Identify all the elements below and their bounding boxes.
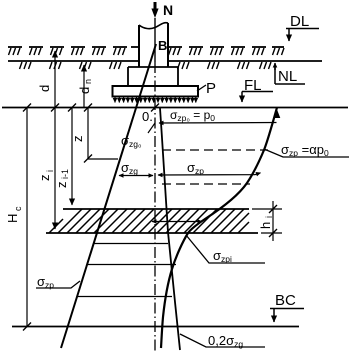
- svg-text:σzp₀ = p0: σzp₀ = p0: [170, 108, 215, 123]
- NL ground line right: [168, 61, 322, 69]
- svg-text:c: c: [13, 206, 23, 211]
- load arrow N: [151, 2, 158, 18]
- svg-text:z: z: [70, 136, 85, 143]
- svg-text:z: z: [37, 175, 52, 182]
- contact pressure p arrows: [115, 97, 196, 103]
- centerline axis: [154, 18, 156, 62]
- soil layer i hatched band top edge: [63, 208, 249, 210]
- pedestal: [128, 67, 178, 86]
- ordinate row at 244: [94, 243, 168, 245]
- svg-text:BC: BC: [275, 292, 296, 309]
- svg-text:d: d: [77, 87, 92, 94]
- ordinate row at 296: [77, 296, 172, 298]
- dashed ordinate row 1: [162, 149, 268, 151]
- svg-text:P: P: [206, 80, 216, 97]
- DL ground line right: [168, 47, 284, 55]
- dimension dn: [77, 65, 93, 107]
- h_i dimension: [252, 201, 282, 241]
- svg-text:N: N: [163, 2, 173, 18]
- sigma_zp0 = p0 ordinate row: [159, 110, 280, 124]
- svg-text:i: i: [264, 216, 274, 218]
- label P with leader: [197, 80, 216, 97]
- DL ground line left: [8, 47, 139, 55]
- FL level label: [242, 77, 273, 102]
- sigma_zpi ordinate arrow in layer: [152, 221, 202, 223]
- svg-text:i-1: i-1: [60, 169, 70, 179]
- dashed ordinate row 2: [162, 183, 250, 185]
- 0.2 sigma_zg line: [160, 108, 180, 350]
- svg-text:n: n: [83, 79, 93, 84]
- label sigma_zp = alpha p0 with leader: [264, 142, 349, 158]
- svg-text:h: h: [258, 222, 273, 229]
- sigma row with arrows at depth z_i-1: [119, 173, 261, 176]
- svg-text:B: B: [158, 38, 167, 53]
- svg-text:σzp =αp0: σzp =αp0: [281, 142, 329, 158]
- column: [139, 23, 168, 67]
- label sigma_zpi with leader: [186, 235, 265, 264]
- left extension line at depth z: [88, 158, 118, 160]
- sigma_zg line from B: [61, 44, 156, 348]
- FL line: [2, 107, 348, 109]
- label sigma_zp bottom left with leader: [36, 274, 80, 290]
- NL ground line left: [8, 61, 139, 69]
- svg-text:d: d: [37, 85, 52, 92]
- dimension z: [70, 108, 92, 163]
- dimension d: [37, 51, 55, 107]
- DL level label: [286, 13, 319, 41]
- label sigma_zg0 with leader: [121, 123, 155, 149]
- dimension z_i: [37, 108, 55, 230]
- svg-text:i: i: [45, 170, 55, 172]
- svg-text:DL: DL: [290, 13, 309, 30]
- footing slab: [113, 86, 199, 97]
- NL level label: [275, 63, 305, 85]
- FL tick marks: [51, 104, 159, 112]
- soil layer i hatching: [49, 209, 249, 233]
- sigma_zp curve: [161, 108, 277, 349]
- BC level label: [270, 292, 304, 322]
- BC line: [12, 326, 299, 328]
- dimension z_i-1: [54, 108, 72, 206]
- svg-text:H: H: [5, 214, 20, 223]
- ordinate row at 264: [87, 264, 176, 266]
- soil layer i hatched band bottom edge: [46, 232, 258, 234]
- dimension Hc: [5, 104, 31, 331]
- svg-text:NL: NL: [278, 68, 297, 85]
- label 0,2 sigma_zg with leader: [180, 333, 265, 349]
- svg-text:z: z: [54, 182, 69, 189]
